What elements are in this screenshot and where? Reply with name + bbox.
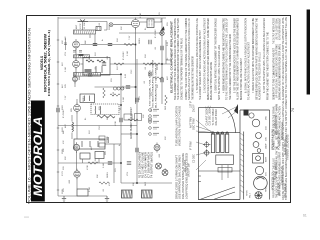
svg-text:OSC: OSC (131, 69, 133, 74)
svg-text:THE LOWEST SIGNAL INPUT WHICH: THE LOWEST SIGNAL INPUT WHICH GIVES A RE… (198, 30, 202, 100)
svg-text:10K: 10K (133, 182, 135, 186)
svg-text:IF TRIM: IF TRIM (190, 141, 193, 150)
svg-text:7.5V: 7.5V (95, 158, 97, 163)
chassis right labels (rotated) (272, 114, 290, 198)
wire T1 in (140, 21, 147, 23)
svg-text:CHASSIS BOLTS: CHASSIS BOLTS (281, 166, 284, 185)
svg-text:OSC 1620 KC: OSC 1620 KC (284, 183, 287, 198)
chassis mounting lines (222, 165, 228, 180)
svg-text:150V: 150V (62, 149, 64, 154)
pointer flag (234, 104, 238, 114)
svg-text:68K: 68K (79, 76, 81, 80)
svg-text:90V: 90V (65, 156, 67, 160)
svg-text:VIEWED FROM REAR OF CHASSIS: VIEWED FROM REAR OF CHASSIS (179, 106, 182, 146)
chassis flange hatch (240, 133, 243, 193)
capacitor C10 (161, 78, 163, 82)
svg-text:90V: 90V (121, 26, 123, 30)
wire left rail (57, 17, 59, 196)
svg-text:NOT BE ATTEMPTED UNTIL THE CHA: NOT BE ATTEMPTED UNTIL THE CHASSIS HAS (217, 45, 221, 100)
svg-text:33K: 33K (97, 174, 99, 178)
svg-text:50C5: 50C5 (157, 64, 159, 70)
socket pin circles (113, 87, 124, 90)
tube V4 3V4 output (73, 59, 80, 70)
capacitor C3 (102, 63, 106, 65)
svg-text:LOOP: LOOP (80, 23, 82, 29)
terminal blob (79, 54, 84, 56)
svg-text:61: 61 (303, 214, 307, 218)
svg-text:PM 4: PM 4 (250, 192, 252, 198)
voltage note text (rotated) (148, 60, 157, 108)
tube V6 audio driver (74, 103, 81, 114)
trimmer label block (rotated bits) (184, 100, 195, 177)
tube V4 location circle (255, 166, 263, 174)
resistor R16 box (95, 152, 104, 159)
svg-text:USE APPROVED DIAL CORD ONLY: USE APPROVED DIAL CORD ONLY (179, 155, 182, 199)
osc coil label (75, 23, 86, 29)
parts list text block (139, 151, 154, 178)
wire V1-V4 link (75, 48, 77, 60)
wire V2 grid (88, 22, 107, 31)
wire takeoff (166, 60, 172, 64)
svg-text:5MF: 5MF (145, 181, 147, 186)
chassis tube name labels (265, 115, 268, 192)
IF can row on chassis (211, 132, 228, 153)
IF module box (83, 58, 110, 76)
svg-text:7.5V: 7.5V (129, 35, 131, 40)
junction node (135, 86, 137, 88)
svg-text:40V: 40V (62, 40, 64, 44)
svg-text:CONNECTED TO THE PROPER TERMIN: CONNECTED TO THE PROPER TERMINALS OF THE… (180, 38, 184, 100)
svg-text:ON OFF SW: ON OFF SW (187, 163, 190, 177)
svg-text:84V: 84V (62, 84, 64, 88)
wire cross tie (121, 133, 137, 135)
battery compartment square (253, 154, 264, 164)
svg-text:2.2M: 2.2M (127, 51, 129, 56)
wire mixer stub (94, 35, 96, 45)
wire osc lead (101, 73, 122, 75)
svg-text:1MEG: 1MEG (83, 96, 85, 102)
dial lamp location circle (257, 149, 261, 153)
chassis outline rear view (198, 108, 269, 200)
speaker voice coil symbol (156, 163, 162, 169)
coil L3 choke (72, 122, 74, 132)
coupling caps row (124, 114, 142, 121)
svg-text:IF 455KC: IF 455KC (155, 29, 157, 38)
wire driver plate (76, 113, 78, 140)
service notes text column (rotated) (169, 18, 269, 100)
svg-text:OSC TRIM: OSC TRIM (193, 118, 196, 130)
svg-text:62V: 62V (62, 62, 64, 66)
ground symbol 2 (105, 196, 109, 201)
svg-text:THE SPEAKER ALLOW THE SET AND: THE SPEAKER ALLOW THE SET AND GENERATOR (191, 56, 195, 100)
coil L2 oscillator coil (74, 73, 101, 77)
svg-text:OSC: OSC (99, 125, 101, 130)
svg-text:AVC: AVC (90, 145, 93, 150)
alignment chart column (rotated) (272, 16, 288, 200)
svg-text:A-: A- (101, 39, 104, 41)
svg-text:5MF: 5MF (89, 55, 91, 60)
svg-text:50C5: 50C5 (151, 106, 153, 112)
svg-text:74: 74 (291, 108, 295, 112)
capacitor C1b padder (79, 51, 82, 53)
svg-text:C2 OSC: C2 OSC (193, 154, 196, 163)
svg-text:BATTERY PLUG: BATTERY PLUG (281, 122, 284, 140)
wire antenna lead (82, 22, 84, 30)
capacitor C18 (136, 148, 138, 152)
capacitor C2a (64, 43, 67, 45)
wire V5 lead (74, 82, 76, 87)
vibrator location circle (249, 113, 254, 118)
dial scale box (216, 155, 234, 164)
capacitor C14 (136, 98, 138, 102)
svg-text:1MEG: 1MEG (107, 172, 109, 178)
svg-text:IF 455KC: IF 455KC (123, 51, 125, 60)
Motorola logo banner (31, 101, 45, 202)
wire output drop (113, 144, 115, 183)
svg-text:22K: 22K (157, 84, 159, 88)
junction node (120, 104, 122, 106)
junction node (136, 133, 138, 135)
battery plug A (hatched) (122, 190, 133, 198)
wire AVC stub rail (65, 38, 67, 50)
svg-text:MOTOROLA: MOTOROLA (31, 117, 45, 197)
svg-text:3.3M: 3.3M (140, 13, 142, 18)
leader lines to trimmer labels (196, 107, 238, 171)
svg-text:BATT: BATT (265, 156, 268, 162)
svg-text:T4 OUTPUT 56A7031: T4 OUTPUT 56A7031 (151, 151, 154, 178)
left rail tick labels (57, 40, 64, 194)
tube V3 1U5 det-audio (132, 18, 140, 30)
svg-text:ALIGNMENT OF THIS RECEIVER SHO: ALIGNMENT OF THIS RECEIVER SHOULD (258, 52, 262, 100)
junction node (136, 182, 138, 184)
coil L3 RF coil (74, 55, 90, 58)
wire choke bottom (71, 133, 73, 140)
svg-text:47K: 47K (63, 140, 65, 144)
wire R15 lead (82, 159, 84, 163)
tube location caption (rotated) (176, 106, 189, 199)
resistor R9 (128, 119, 138, 121)
svg-text:VOLTAGES MEASURED WITH VTVM: VOLTAGES MEASURED WITH VTVM (152, 60, 155, 108)
transformer T1 1st IF (147, 19, 154, 28)
svg-text:172V: 172V (62, 171, 64, 176)
wire IF link (119, 32, 162, 34)
tuning shaft crosshatched circle (255, 192, 262, 199)
resistor R4 (103, 88, 105, 98)
chassis top label block (206, 105, 219, 125)
svg-text:7.5V: 7.5V (65, 95, 67, 100)
svg-text:BEFORE STARTING USE THE LOWEST: BEFORE STARTING USE THE LOWEST (239, 58, 243, 100)
network box volume control (80, 94, 95, 103)
svg-text:2.2M: 2.2M (89, 187, 91, 192)
svg-text:3.3M: 3.3M (123, 97, 125, 102)
capacitor C12 (149, 118, 151, 122)
wire osc-out link (76, 152, 78, 171)
tube V1 1R5 converter (73, 39, 80, 50)
wire V1 plate lead (80, 44, 135, 46)
svg-text:10K: 10K (107, 136, 109, 140)
resistor R14 (99, 182, 109, 184)
wire lower bus (58, 162, 121, 164)
trimmer capacitor C2 (203, 149, 210, 156)
wire ground bus (58, 195, 107, 197)
wire filter to rail (105, 143, 121, 145)
svg-text:TUNING SHAFT: TUNING SHAFT (275, 162, 278, 180)
margin smudge (24, 217, 29, 218)
resistor R8 (165, 95, 167, 105)
wire V4 to IF module (80, 63, 83, 65)
wire driver grid (76, 99, 78, 104)
tube V3 location circle (253, 142, 259, 148)
battery plug B (hatched) (142, 190, 153, 198)
resistor R1 (124, 43, 134, 45)
tube V7 oscillator section (73, 142, 79, 152)
transformer T2 osc trim (96, 27, 101, 31)
wire grid stub (89, 35, 91, 39)
dial lamp pilot (109, 23, 113, 27)
capacitor C15 (127, 162, 131, 164)
wire center drop (136, 59, 138, 183)
svg-text:106V: 106V (62, 105, 64, 110)
cabinet diagonal edge (201, 187, 236, 199)
junction node (161, 63, 163, 65)
power transformer on chassis (244, 110, 249, 116)
detector cluster (99, 136, 109, 147)
svg-text:2ND IF: 2ND IF (193, 104, 196, 112)
tube V8 output section (74, 169, 80, 179)
component value labels (63, 12, 169, 192)
wire bottom bus (121, 182, 172, 184)
svg-text:5MF: 5MF (165, 105, 167, 110)
svg-text:VOLUME 16 — MOST-OFTEN-NEEDED: VOLUME 16 — MOST-OFTEN-NEEDED 1956 RADIO… (27, 27, 31, 204)
resistor R15 box (80, 153, 90, 159)
wire audio bus (110, 63, 170, 65)
capacitor C20 electrolytic (77, 189, 88, 196)
trimmer capacitor C1 (203, 141, 210, 148)
svg-text:190V: 190V (62, 189, 64, 194)
dial lamp (160, 31, 164, 35)
svg-text:FOR 56T4 (56B6-1), BV6 (56B1-1: FOR 56T4 (56B6-1), BV6 (56B1-1) (47, 30, 51, 96)
wire B minus bus (58, 125, 137, 127)
svg-text:128V: 128V (62, 127, 64, 132)
wire T3 tap (119, 108, 121, 110)
coil L1 loop antenna (74, 30, 96, 34)
capacitor C17 (57, 108, 59, 112)
junction node (120, 162, 122, 164)
wire output lead (76, 178, 78, 189)
svg-text:FROM THE CABINET AND THE BATTE: FROM THE CABINET AND THE BATTERY CONNECT… (265, 32, 269, 100)
output transformer symbol (162, 170, 168, 176)
capacitor C13 (120, 118, 122, 122)
capacitor C4 (88, 74, 92, 76)
resistor R10 zigzag under T3 (97, 115, 115, 118)
filter network box (74, 139, 105, 149)
svg-text:22K: 22K (143, 114, 145, 118)
svg-text:47K: 47K (109, 182, 111, 186)
junction node (135, 44, 137, 46)
wire AVC lead (95, 86, 136, 88)
wire V2 plate (113, 24, 132, 26)
svg-text:68K: 68K (85, 40, 87, 44)
tube V1 location circle (252, 119, 260, 127)
svg-text:90V: 90V (165, 136, 167, 140)
resistor R11 (150, 63, 160, 65)
junction node (120, 74, 122, 76)
page border frame (27, 16, 291, 203)
svg-text:TO AVOID AVC ACTION DURING ANY: TO AVOID AVC ACTION DURING ANY ADJUSTMEN… (247, 42, 251, 100)
dial cord curve (224, 108, 235, 133)
capacitor C8 (149, 72, 151, 76)
svg-text:OSC: OSC (123, 85, 125, 90)
wire V3 cathode drop (135, 28, 137, 104)
svg-text:SPKR: SPKR (266, 186, 268, 192)
wire T1 out (154, 21, 162, 23)
capacitor C5 (149, 40, 151, 44)
resistor R5 (153, 77, 163, 79)
wire R16 lead (98, 159, 100, 164)
resistor R6 (143, 63, 153, 65)
ground symbol (62, 196, 66, 201)
wire top bus (58, 17, 166, 19)
resistor R7 (114, 63, 124, 65)
wire B minus riser (120, 74, 122, 105)
svg-text:REPLACE ONLY WITH PARTS HAVING: REPLACE ONLY WITH PARTS HAVING (209, 62, 213, 100)
capacitor C2 (93, 43, 97, 45)
binding edge bar (307, 10, 310, 95)
svg-text:2.2M: 2.2M (65, 67, 67, 72)
transformer T3 output (dashed box with windings) (91, 104, 119, 115)
tube V9 ballast (154, 143, 160, 153)
antenna (78, 20, 89, 22)
svg-text:AVC: AVC (64, 123, 67, 128)
svg-text:470K: 470K (115, 121, 117, 126)
wire lamp lead (161, 18, 163, 104)
svg-text:LAMP: LAMP (265, 143, 268, 149)
svg-text:10K: 10K (84, 22, 86, 26)
tube V5 rectifier (73, 75, 78, 84)
wire right drop short (165, 40, 167, 60)
svg-text:50C5: 50C5 (109, 24, 111, 30)
wire choke top (71, 115, 73, 122)
dial pointer flag (160, 26, 164, 31)
svg-text:THE CHASSIS HAS BEEN REMOVED F: THE CHASSIS HAS BEEN REMOVED FROM THE CA… (284, 16, 288, 200)
capacitor C7 (161, 46, 163, 50)
speaker circle (254, 176, 268, 190)
chassis shelf line (198, 168, 240, 182)
svg-text:DIAL AT 540KC: DIAL AT 540KC (215, 109, 218, 126)
capacitor C16 (108, 162, 112, 164)
resistor R3 (110, 94, 120, 96)
capacitor C9 (126, 86, 130, 88)
svg-text:SPKR: SPKR (247, 190, 249, 196)
tube socket terminal chart (149, 109, 159, 136)
svg-text:A-: A- (118, 144, 121, 146)
capacitor C1a padder (73, 51, 76, 53)
wire V4 cathode (75, 69, 77, 77)
resistor R12 (88, 162, 98, 164)
svg-text:470K: 470K (87, 165, 89, 170)
svg-text:AUDIO OUTPUT 3V4 SOCKET: AUDIO OUTPUT 3V4 SOCKET (130, 106, 133, 139)
speaker label bits (247, 190, 252, 198)
svg-text:1MEG: 1MEG (139, 38, 141, 44)
svg-text:3.3M: 3.3M (103, 163, 105, 168)
svg-text:47K: 47K (65, 36, 67, 40)
model title text (rotated) (40, 30, 51, 96)
tube V2 location circle (256, 133, 262, 139)
capacitor C6 (108, 43, 112, 45)
svg-text:ANT: ANT (75, 24, 78, 29)
svg-text:TRIMMER LOCATIONS: TRIMMER LOCATIONS (287, 134, 290, 160)
wire left drop (120, 105, 122, 183)
svg-text:THE SIGNAL GENERATOR TO THE CO: THE SIGNAL GENERATOR TO THE COMMON NEGAT… (228, 34, 232, 100)
